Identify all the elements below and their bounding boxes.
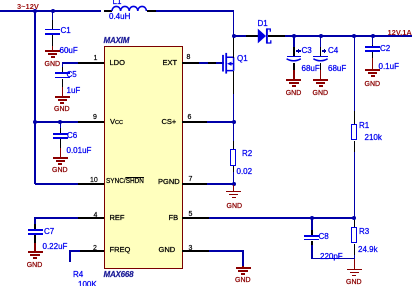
ground C6 [60, 148, 62, 158]
pin 2 FREQ wire [80, 250, 104, 252]
wire top rail left [0, 10, 101, 12]
ground C1 [52, 46, 54, 51]
wire R1 to FB [354, 152, 356, 219]
ground C5 [62, 87, 64, 96]
node drain/diode junction [232, 34, 236, 38]
capacitor C4 [319, 34, 323, 38]
ground pin3 [242, 266, 244, 268]
pin numbers [94, 55, 98, 62]
inductor L1 pin stubs [104, 10, 112, 12]
diode D1 [233, 35, 246, 37]
pin 4 REF wire [78, 217, 104, 219]
wire corner vertical from rail [233, 10, 235, 37]
capacitor C7 [34, 224, 36, 230]
capacitor C2 [371, 34, 375, 38]
pin names [110, 59, 125, 67]
capacitor C3 [292, 34, 296, 38]
pin 10 SYNC wire [78, 183, 104, 185]
pin 8 EXT wire [182, 62, 199, 64]
wire output rail [285, 35, 412, 37]
ground C4 [320, 70, 322, 79]
resistor R4 labels [73, 271, 83, 279]
pin 7 PGND wire [182, 183, 207, 185]
wire left vertical [34, 10, 36, 184]
pin 1 LDO wire [78, 62, 104, 64]
pin 5 FB wire [182, 217, 209, 219]
node junction rail/left vertical [33, 9, 37, 13]
ground R3 [354, 259, 356, 270]
ground R2/PGND [233, 185, 235, 191]
pin 3 GND wire [182, 250, 209, 252]
pin 6 CS+ wire [182, 121, 207, 123]
node 12V,1A label [388, 29, 412, 37]
capacitor C1 [51, 9, 55, 13]
ground C7 [34, 243, 36, 252]
ground C2 [372, 58, 374, 70]
wire Q1 drain up [233, 37, 235, 58]
capacitor C8 [311, 218, 313, 230]
wire top rail right of L1 [156, 10, 234, 12]
wire Q1 source down [233, 71, 235, 94]
resistor R3 [354, 218, 356, 221]
pin 9 Vcc wire [78, 121, 104, 123]
resistor R2 [233, 122, 235, 141]
node 3~12V label [17, 3, 39, 11]
capacitor C6 [60, 122, 62, 128]
resistor R1 [352, 34, 356, 38]
op-amp U1 MAX668 chip body [104, 46, 183, 269]
capacitor C5 [62, 67, 64, 73]
ground C3 [293, 70, 295, 79]
